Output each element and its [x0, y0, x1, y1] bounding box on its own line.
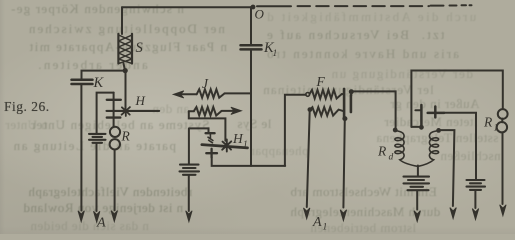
resistor F lower [310, 107, 344, 115]
battery B1 (H1 branch) [180, 129, 200, 211]
svg-text:1: 1 [273, 49, 278, 59]
label S [136, 40, 144, 56]
capacitor K [72, 80, 93, 84]
contact bar tall [342, 89, 347, 208]
arrow below B3 [472, 209, 478, 220]
telephone receiver R [110, 127, 120, 150]
wire F2 dot down to arrow [307, 110, 310, 207]
wire battery down to arrow [96, 143, 98, 211]
wire coil bottom to junction [124, 64, 126, 71]
inductor Rd left winding [395, 130, 418, 166]
arrow to A (middle) [94, 211, 100, 222]
capacitor K1 [241, 45, 262, 49]
battery B3 right [467, 180, 486, 208]
telephone receiver R1 [497, 109, 508, 132]
label H [135, 93, 146, 108]
wire from short bar to Rd left coil [352, 91, 396, 128]
label F [316, 74, 326, 89]
svg-text:1: 1 [323, 223, 328, 233]
resistor J with left arrow [173, 89, 251, 98]
label R [121, 129, 131, 144]
svg-text:1: 1 [494, 124, 499, 134]
contact bar H1r [415, 105, 421, 127]
wire battery branch up and over [97, 93, 114, 134]
node junction below S [123, 68, 128, 73]
resistor F upper [310, 90, 344, 99]
wire K1 down to bottom bus [250, 50, 252, 166]
arrow below right coil wire [450, 208, 456, 219]
wire below R1 to arrow [502, 133, 504, 204]
label R1 [483, 115, 498, 134]
label Rd [377, 144, 394, 163]
node dot F2 left [308, 107, 313, 112]
label A [96, 216, 106, 231]
node dot Rd left coil top [393, 128, 398, 133]
svg-text:H: H [135, 93, 146, 108]
svg-text:A: A [96, 216, 106, 231]
wire right box top [411, 71, 502, 127]
wire Rd right coil to right arrow [441, 130, 455, 206]
arrow below B2 [414, 211, 420, 222]
battery B [89, 134, 106, 143]
label K [93, 75, 105, 91]
node small circle at F input [306, 93, 310, 97]
wire K down to arrow [80, 85, 82, 211]
inductor Rd right winding [418, 131, 438, 167]
label O [255, 7, 265, 22]
arrow to A1 (left) [304, 208, 310, 219]
svg-text:R: R [483, 115, 493, 130]
wire coil tails to battery [417, 166, 419, 177]
label H1 [232, 131, 248, 150]
inductor S [118, 34, 132, 64]
svg-text:A: A [312, 215, 322, 230]
wire corner to H1r bar [411, 126, 420, 128]
detector H [107, 71, 160, 127]
label K1 [263, 40, 277, 59]
svg-text:d: d [389, 153, 394, 163]
svg-text:J: J [202, 76, 209, 91]
svg-text:O: O [255, 7, 265, 22]
wire K1 vertical from node O [250, 7, 252, 45]
plus contact [428, 107, 476, 180]
arrow below R1 [500, 205, 506, 216]
resistor J2 with right arrow [189, 107, 242, 115]
node dot Rd right coil top [436, 128, 441, 133]
wire antenna lead down to coil [121, 7, 123, 34]
label A1 [312, 215, 327, 233]
svg-text:S: S [136, 40, 144, 56]
svg-text:R: R [121, 129, 131, 144]
contact bar short [349, 89, 354, 112]
wire J2 left end down to asterisk contact [189, 111, 226, 141]
wire junction to capacitor K [82, 71, 126, 79]
wire riser to F [285, 95, 306, 166]
svg-text:R: R [377, 144, 387, 159]
label J [202, 76, 209, 91]
wire bottom bus of H1 box [212, 157, 286, 166]
arrow to A (right) [111, 211, 117, 222]
wire dashed antenna line [257, 5, 472, 6]
arrow to A1 (right) [340, 210, 346, 221]
svg-text:K: K [93, 75, 105, 91]
faint show-through text lines (mirrored) [10, 1, 184, 17]
wire top horizontal [122, 6, 253, 8]
node dot bar bottom [419, 125, 424, 130]
svg-text:1: 1 [243, 140, 248, 150]
wire below R to arrow [114, 150, 116, 211]
node O junction dot [251, 5, 256, 10]
arrow below B1 [186, 211, 192, 222]
svg-text:F: F [316, 74, 326, 89]
figure caption [4, 99, 50, 115]
arrow to A (left) [78, 211, 84, 222]
detector H1 [189, 128, 248, 157]
battery B2 center [404, 177, 430, 210]
